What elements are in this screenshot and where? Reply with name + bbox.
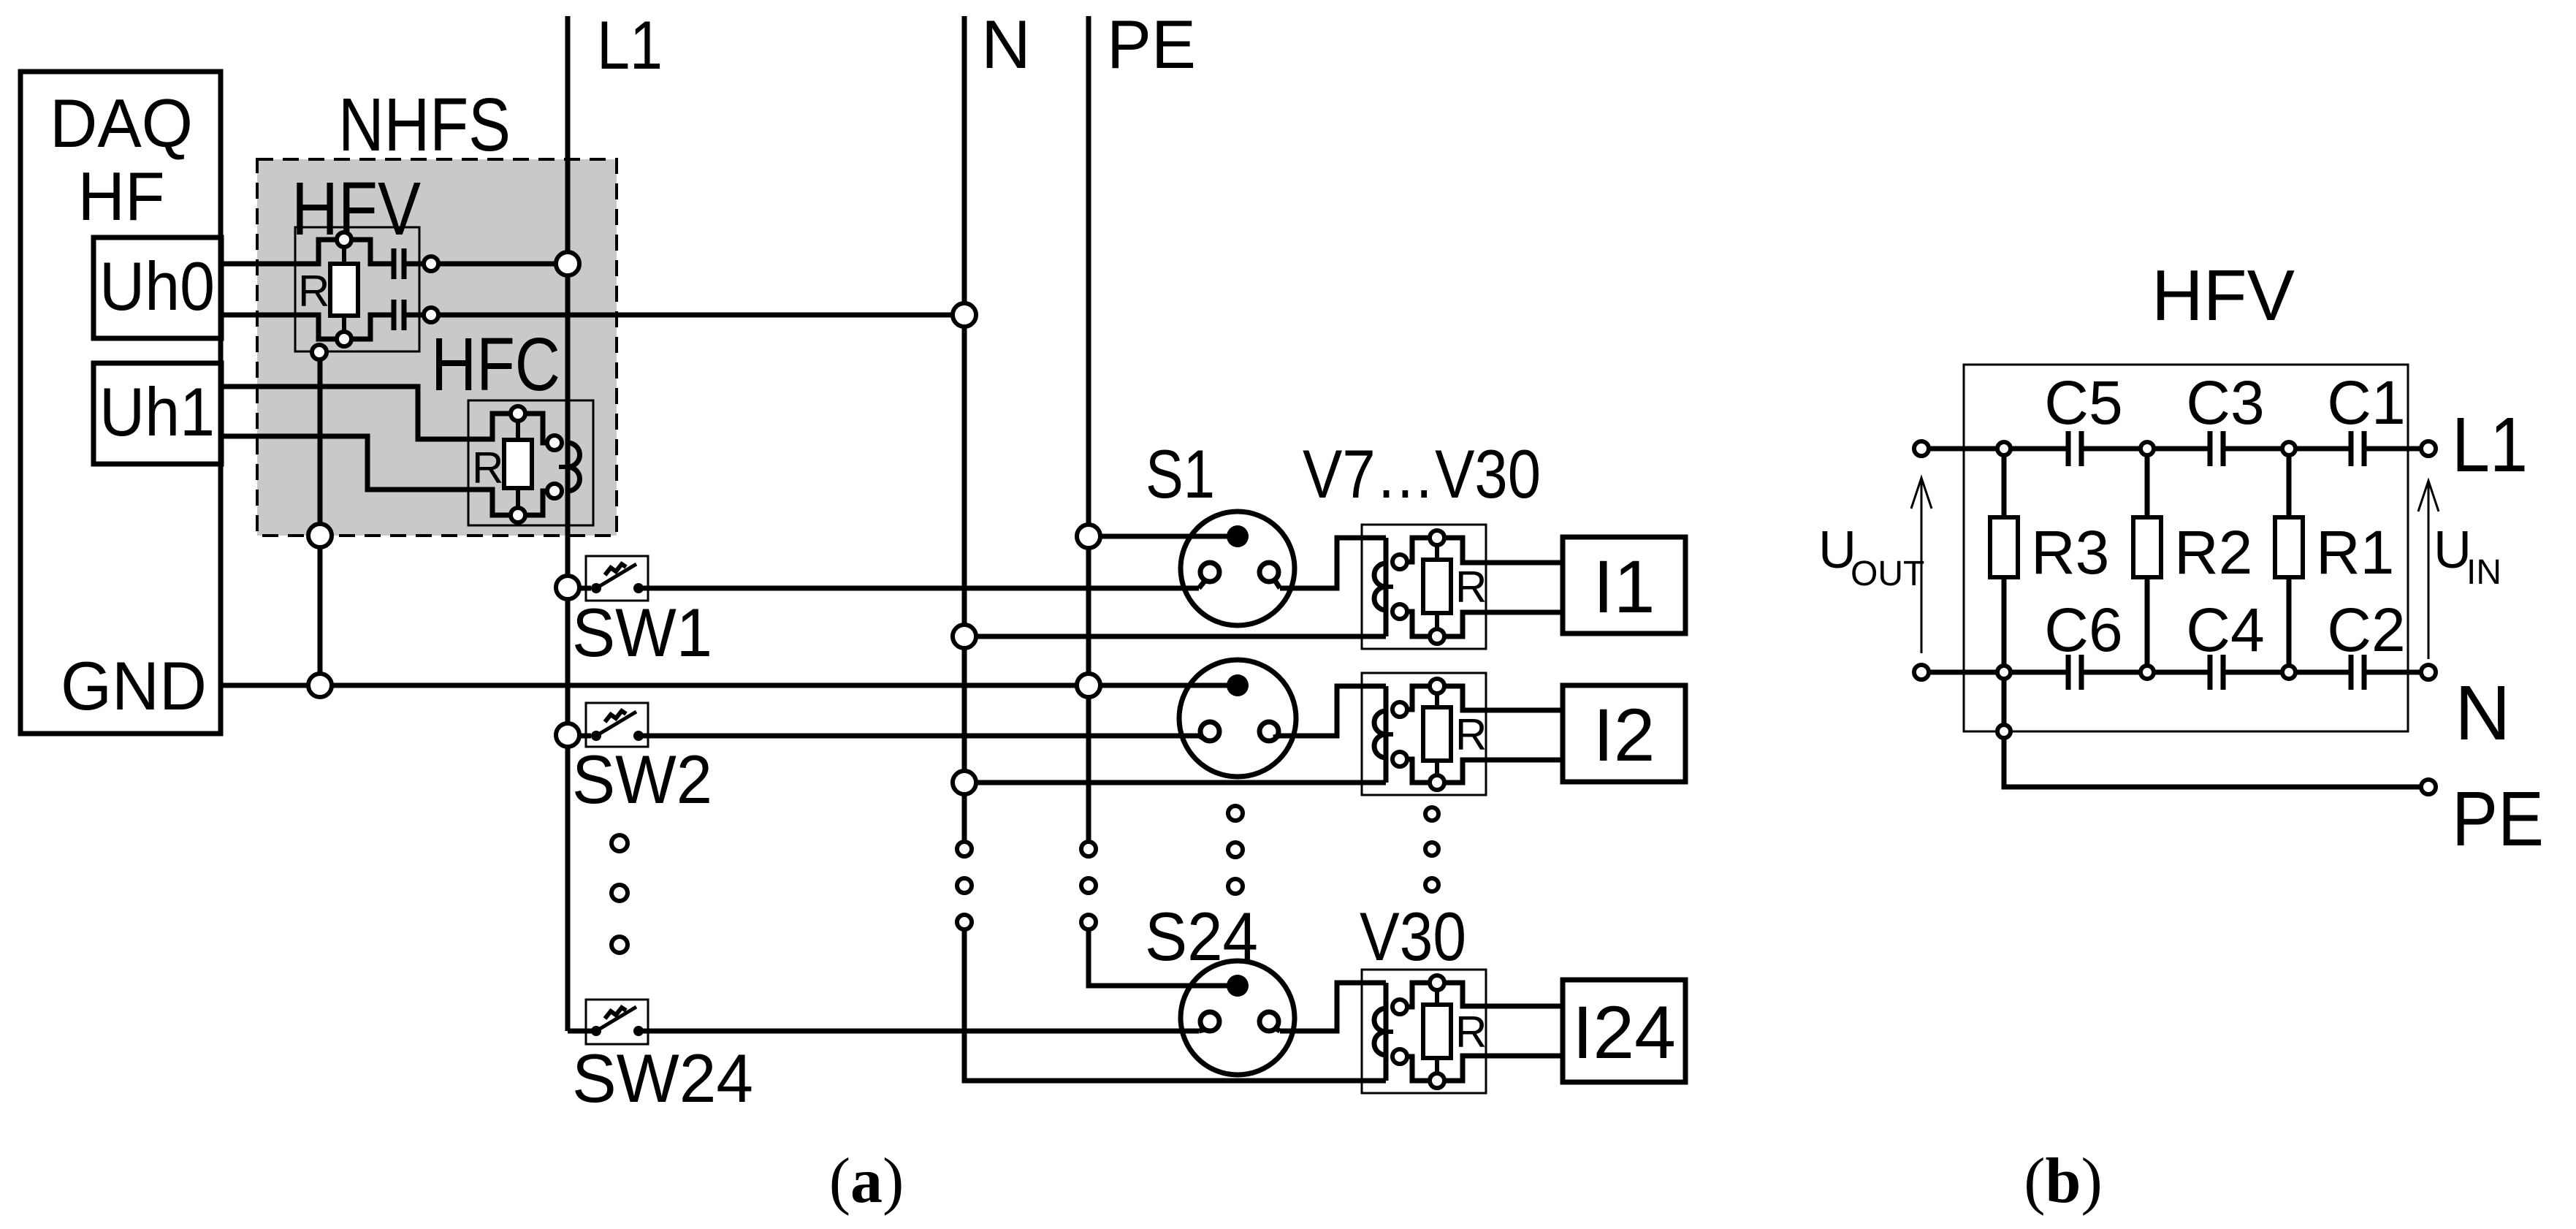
wire HFV upper cap to node <box>406 262 424 267</box>
continuation dots (switch column) <box>611 835 628 953</box>
svg-text:V30: V30 <box>1360 898 1466 975</box>
wire bottom rail seg1 <box>1929 670 2068 675</box>
node junction on PE (S1) <box>1077 525 1100 548</box>
CT primary bar (S2 row) <box>1384 686 1389 783</box>
wire R to I1 lower <box>1444 612 1563 636</box>
wire R2 bottom stub <box>2145 577 2150 666</box>
port box Uh1 <box>94 363 221 464</box>
svg-text:(b): (b) <box>2024 1146 2103 1217</box>
svg-text:C4: C4 <box>2186 596 2264 664</box>
wire HFV bottom-right rail <box>351 315 392 339</box>
wire CT secondary top to R (S1 row) <box>1407 538 1430 562</box>
label R (S2 row) <box>1455 710 1487 759</box>
label PE (top) <box>1107 6 1196 83</box>
label I24 <box>1572 991 1676 1074</box>
wire PE corner to S24 top pin <box>1089 929 1238 986</box>
current transformer V block box (S24 row) <box>1362 970 1486 1093</box>
wire R to I1 upper <box>1444 538 1563 563</box>
socket S24 outline <box>1181 961 1295 1075</box>
socket S24 right pin <box>1260 1012 1279 1031</box>
switch contacts S24 <box>591 1026 644 1036</box>
wire switch to S2 left pin <box>639 736 1205 739</box>
node on NHFS border (ground) <box>308 524 332 547</box>
label C2 <box>2327 596 2405 664</box>
wire bottom rail seg4 <box>2364 670 2421 675</box>
wire R to I24 lower <box>1444 1056 1563 1081</box>
wire HFV lower cap to node <box>406 313 424 318</box>
label HF <box>78 158 165 235</box>
label R (HFC) <box>472 444 503 492</box>
wire Uh1 lower to HFC <box>221 436 511 515</box>
label I2 <box>1593 693 1655 777</box>
wire R stubs (S2 row) <box>1435 693 1439 775</box>
node U_OUT top terminal <box>1914 441 1929 456</box>
wire PE to S2 top pin <box>1100 683 1238 688</box>
svg-text:N: N <box>2455 670 2511 756</box>
wire HFC R top stub <box>516 421 520 440</box>
continuation dots (socket column) <box>1228 806 1243 894</box>
resistor R burden (S24 row) <box>1423 1005 1451 1058</box>
label C3 <box>2186 368 2264 437</box>
label SW24 <box>572 1040 753 1116</box>
wire PE vertical line (upper) <box>1086 16 1091 842</box>
switch box S1 <box>586 556 648 601</box>
label HFC <box>431 322 560 406</box>
HFC inner box <box>468 400 593 525</box>
node CT secondary top (S24 row) <box>1392 1000 1407 1014</box>
wire S1 right pin to CT primary <box>1273 538 1386 588</box>
socket S1 right pin <box>1260 563 1279 582</box>
DAQ HF unit box <box>20 72 221 734</box>
label V7...V30 <box>1303 435 1541 512</box>
wire switch to S24 left pin <box>639 1030 1205 1031</box>
capacitor (HFV upper) <box>394 248 404 279</box>
node burden R bottom terminal (S24 row) <box>1430 1073 1444 1088</box>
inductor coil HFC (on L1) <box>559 443 580 491</box>
capacitor C2 <box>2351 655 2364 690</box>
label N (top) <box>981 6 1031 83</box>
node GND junction on PE <box>1077 674 1100 697</box>
node top rail B <box>2141 442 2154 455</box>
svg-text:C3: C3 <box>2186 368 2264 437</box>
wire bottom rail seg3 <box>2223 670 2351 675</box>
label DAQ <box>50 85 193 161</box>
NHFS filter block (gray dashed box) <box>257 159 617 536</box>
svg-text:SW1: SW1 <box>572 594 712 671</box>
continuation dots (N line) <box>957 842 972 929</box>
node CT secondary bottom (S1 row) <box>1392 604 1407 619</box>
wire top rail seg1 <box>1929 446 2068 452</box>
label L1 (b) <box>2452 402 2528 488</box>
node HFV upper output <box>424 256 438 271</box>
label U_IN <box>2434 521 2501 592</box>
node top rail A <box>1997 442 2011 455</box>
label S24 <box>1145 898 1258 975</box>
node burden R bottom terminal (S1 row) <box>1430 629 1444 644</box>
svg-text:GND: GND <box>61 647 207 724</box>
svg-text:OUT: OUT <box>1851 555 1924 593</box>
node bottom rail C <box>2282 666 2295 679</box>
svg-text:DAQ: DAQ <box>50 85 193 161</box>
node burden R bottom terminal (S2 row) <box>1430 775 1444 790</box>
meter box I24 <box>1563 980 1685 1082</box>
wire HFC top-right rail <box>525 414 547 443</box>
label N (b) <box>2455 670 2511 756</box>
socket S2 left pin <box>1200 722 1219 741</box>
svg-text:S1: S1 <box>1146 435 1215 512</box>
label I1 <box>1593 545 1655 628</box>
CT secondary coil (S1 row) <box>1374 563 1393 610</box>
arrow U_IN <box>2418 481 2439 659</box>
meter box I1 <box>1563 537 1685 633</box>
label C4 <box>2186 596 2264 664</box>
current transformer V block box (S1 row) <box>1362 525 1486 649</box>
node U_OUT bottom terminal <box>1914 665 1929 680</box>
wire L1 vertical line <box>565 16 571 1031</box>
caption (b) <box>2024 1146 2103 1217</box>
wire Uh0 upper to HFV <box>221 240 337 264</box>
node junction on PE (S2) <box>1077 674 1100 697</box>
svg-text:L1: L1 <box>2452 402 2528 488</box>
node PE terminal (b) <box>2421 780 2436 794</box>
label R3 <box>2031 518 2109 587</box>
resistor R burden (S2 row) <box>1423 707 1451 761</box>
wire R to I2 lower <box>1444 760 1563 783</box>
HFV detail box <box>1964 365 2408 731</box>
svg-text:R: R <box>1455 710 1487 759</box>
label S1 <box>1146 435 1215 512</box>
label C6 <box>2044 596 2122 664</box>
label C1 <box>2327 368 2405 437</box>
svg-text:PE: PE <box>2452 776 2544 862</box>
wire HFV top-right rail <box>351 240 392 264</box>
node GND junction (HFV/HFC drop) <box>308 674 332 697</box>
switch lever S24 <box>596 1007 636 1031</box>
socket S1 earth pin (top, filled) <box>1227 525 1249 547</box>
switch box S24 <box>586 1000 648 1044</box>
capacitor C4 <box>2210 655 2223 690</box>
node HFV R bottom terminal <box>337 332 351 346</box>
node bottom rail B <box>2141 666 2154 679</box>
resistor R3 <box>1990 517 2018 577</box>
svg-text:R: R <box>1455 1008 1487 1057</box>
node burden R top terminal (S1 row) <box>1430 530 1444 545</box>
svg-text:SW24: SW24 <box>572 1040 753 1116</box>
label C5 <box>2044 368 2122 437</box>
socket S2 right pin <box>1260 722 1279 741</box>
wire CT secondary bottom to R (S24 row) <box>1407 1057 1430 1081</box>
node HFC coupling bottom <box>547 484 562 498</box>
wire CT secondary top to R (S24 row) <box>1407 983 1430 1007</box>
svg-text:SW2: SW2 <box>572 741 712 818</box>
wire Uh0 lower to HFV <box>221 315 337 339</box>
continuation dots (PE line) <box>1081 842 1096 929</box>
wire N vertical line (lower) <box>962 929 967 1081</box>
resistor R1 <box>2275 517 2303 577</box>
switch lever S1 <box>596 564 636 588</box>
node CT secondary bottom (S2 row) <box>1392 752 1407 766</box>
resistor R burden (S1 row) <box>1423 560 1451 613</box>
wire top rail seg3 <box>2223 446 2351 452</box>
svg-text:HF: HF <box>78 158 165 235</box>
switch contacts S1 <box>591 583 644 593</box>
CT secondary coil (S2 row) <box>1374 711 1393 758</box>
wire HFV upper output to L1 <box>438 262 557 267</box>
svg-text:R1: R1 <box>2316 518 2394 587</box>
wire L1 junction to switch <box>579 734 591 739</box>
label Uh1 <box>99 373 215 450</box>
capacitor (HFV lower) <box>394 300 404 330</box>
wire N to CT primary bottom (S2 row) <box>976 780 1386 785</box>
node U_IN top terminal <box>2421 441 2436 456</box>
wire PE to S1 top pin <box>1100 534 1238 539</box>
switch box S2 <box>586 703 648 747</box>
wire R stubs (S24 row) <box>1435 990 1439 1073</box>
svg-text:Uh0: Uh0 <box>99 248 215 324</box>
meter box I2 <box>1563 685 1685 782</box>
wire PE branch <box>2004 679 2421 787</box>
wire top rail seg2 <box>2081 446 2210 452</box>
wire R3 top stub <box>2002 455 2007 517</box>
CT primary bar (S24 row) <box>1384 983 1389 1081</box>
svg-text:R2: R2 <box>2174 518 2252 587</box>
wire L1 corner to SW24 <box>568 1029 593 1034</box>
wire N to CT primary bottom (S1 row) <box>976 634 1386 639</box>
wire top rail seg4 <box>2364 446 2421 452</box>
svg-text:V7…V30: V7…V30 <box>1303 435 1541 512</box>
wire R to I24 upper <box>1444 983 1563 1006</box>
capacitor C6 <box>2068 655 2081 690</box>
label GND <box>61 647 207 724</box>
resistor R2 <box>2133 517 2161 577</box>
label R1 <box>2316 518 2394 587</box>
svg-text:C1: C1 <box>2327 368 2405 437</box>
wire S2 right pin to CT primary <box>1273 686 1386 737</box>
wire R to I2 upper <box>1444 686 1563 710</box>
label HFV (detail) <box>2152 255 2295 335</box>
wire CT secondary top to R (S2 row) <box>1407 686 1430 709</box>
wire Uh1 upper to HFC <box>221 387 511 439</box>
svg-text:(a): (a) <box>829 1146 904 1217</box>
switch actuator S24 <box>605 1008 626 1019</box>
wire bottom rail seg2 <box>2081 670 2210 675</box>
svg-text:C5: C5 <box>2044 368 2122 437</box>
node burden R top terminal (S24 row) <box>1430 975 1444 990</box>
svg-text:R: R <box>472 444 503 492</box>
socket S1 outline <box>1181 511 1295 625</box>
arrow U_OUT <box>1911 478 1932 653</box>
label L1 (top) <box>597 7 663 83</box>
wire L1 junction to switch <box>579 586 591 591</box>
node HFV lower output <box>424 308 438 322</box>
switch contacts S2 <box>591 731 644 741</box>
wire R stubs (S1 row) <box>1435 545 1439 629</box>
switch actuator S1 <box>605 564 626 575</box>
label Uh0 <box>99 248 215 324</box>
label U_OUT <box>1818 521 1924 593</box>
resistor R (HFC) <box>504 440 532 488</box>
label R (S24 row) <box>1455 1008 1487 1057</box>
wire CT secondary bottom to R (S1 row) <box>1407 612 1430 636</box>
socket S1 left pin <box>1200 563 1219 582</box>
switch lever S2 <box>596 712 636 736</box>
port box Uh0 <box>94 237 221 338</box>
svg-text:I2: I2 <box>1593 693 1655 777</box>
svg-text:N: N <box>981 6 1031 83</box>
continuation dots (CT column) <box>1425 807 1438 891</box>
svg-text:I24: I24 <box>1572 991 1676 1074</box>
current transformer V block box (S2 row) <box>1362 673 1486 795</box>
svg-text:Uh1: Uh1 <box>99 373 215 450</box>
node HFV R top terminal <box>337 232 351 247</box>
wire HFV R top stub <box>342 247 346 264</box>
svg-text:R: R <box>298 267 329 316</box>
svg-text:L1: L1 <box>597 7 663 83</box>
node HFC R bottom terminal <box>511 508 525 522</box>
resistor R (HFV) <box>330 264 358 316</box>
wire R1 top stub <box>2287 455 2292 517</box>
node HFC R top terminal <box>511 406 525 421</box>
HFV inner box <box>295 227 419 351</box>
svg-text:R3: R3 <box>2031 518 2109 587</box>
node junction on L1 (HFV upper) <box>556 252 579 275</box>
CT secondary coil (S24 row) <box>1374 1008 1393 1055</box>
wire N corner to CT primary bottom (S24 row) <box>964 929 1386 1081</box>
socket S2 outline <box>1179 660 1296 777</box>
capacitor C3 <box>2210 431 2223 466</box>
node junction on L1 (SW2) <box>556 723 579 747</box>
node bottom rail A <box>1997 666 2011 679</box>
label R (HFV) <box>298 267 329 316</box>
wire HFV ground drop <box>318 359 323 674</box>
switch actuator S2 <box>605 711 626 722</box>
wire R3 bottom stub <box>2002 577 2007 666</box>
wire R1 bottom stub <box>2287 577 2292 666</box>
svg-text:NHFS: NHFS <box>338 83 511 167</box>
socket S24 left pin <box>1200 1012 1219 1031</box>
node on box border (PE branch) <box>1997 725 2011 738</box>
node HFC coupling top <box>547 435 562 450</box>
wire HFC bottom-right rail <box>525 491 547 515</box>
wire N vertical line (upper) <box>962 16 967 844</box>
socket S24 earth pin (top, filled) <box>1227 975 1249 997</box>
svg-text:C2: C2 <box>2327 596 2405 664</box>
capacitor C5 <box>2068 431 2081 466</box>
wire PE vertical line (lower) <box>1086 929 1091 986</box>
svg-text:HFV: HFV <box>2152 255 2295 335</box>
wire HFV R bottom stub <box>342 316 346 332</box>
socket S2 earth pin (top, filled) <box>1227 674 1249 696</box>
wire S24 right pin to CT primary <box>1273 983 1386 1031</box>
svg-text:C6: C6 <box>2044 596 2122 664</box>
node junction on N (S2 row) <box>953 771 976 794</box>
wire GND horizontal <box>221 683 1233 688</box>
wire CT secondary bottom to R (S2 row) <box>1407 759 1430 783</box>
node CT secondary bottom (S24 row) <box>1392 1049 1407 1064</box>
label HFV <box>291 167 421 251</box>
label R2 <box>2174 518 2252 587</box>
svg-text:I1: I1 <box>1593 545 1655 628</box>
svg-text:IN: IN <box>2466 553 2501 592</box>
wire HFC R bottom stub <box>516 488 520 508</box>
label NHFS <box>338 83 511 167</box>
node top rail C <box>2282 442 2295 455</box>
label V30 <box>1360 898 1466 975</box>
label PE (b) <box>2452 776 2544 862</box>
node HFV ground pin <box>312 345 327 359</box>
wire R2 top stub <box>2145 455 2150 517</box>
label R (S1 row) <box>1455 563 1487 612</box>
svg-text:PE: PE <box>1107 6 1196 83</box>
node CT secondary top (S1 row) <box>1392 555 1407 569</box>
node junction on N (S1 row) <box>953 625 976 648</box>
svg-text:HFC: HFC <box>431 322 560 406</box>
wire HFV lower output to N <box>438 313 953 318</box>
node junction on L1 (SW1) <box>556 576 579 599</box>
wire switch to S1 left pin <box>639 580 1205 588</box>
CT primary bar (S1 row) <box>1384 538 1389 636</box>
label SW1 <box>572 594 712 671</box>
label SW2 <box>572 741 712 818</box>
node CT secondary top (S2 row) <box>1392 702 1407 717</box>
node U_IN bottom terminal <box>2421 665 2436 680</box>
node burden R top terminal (S2 row) <box>1430 679 1444 693</box>
node junction on N (HFV lower) <box>953 303 976 327</box>
capacitor C1 <box>2351 431 2364 466</box>
svg-text:R: R <box>1455 563 1487 612</box>
caption (a) <box>829 1146 904 1217</box>
